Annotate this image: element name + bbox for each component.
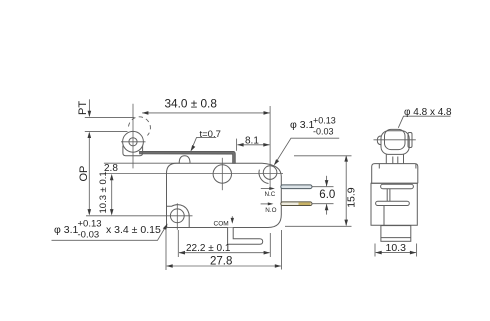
10.3 arrow up (110, 174, 114, 180)
side lower stadium bar (376, 201, 410, 205)
2.8 top reference (body top extended) (104, 162, 180, 164)
34.0 arrow right (264, 111, 270, 115)
10.3 arrow right (410, 251, 416, 255)
bottom-left hole vertical centerline (176, 203, 178, 230)
side terminal block (381, 226, 411, 242)
side upper block (372, 164, 418, 184)
plunger circle vertical centerline (221, 158, 223, 190)
bottom-left hole horizontal centerline (86, 215, 193, 217)
operating position line (85, 130, 128, 132)
svg-text:φ 3.1: φ 3.1 (54, 224, 78, 236)
side roller (385, 129, 406, 149)
plunger guide circle (213, 165, 231, 183)
N.O pin solder tip (299, 202, 311, 205)
side mid block (371, 183, 418, 225)
roller outer circle (front view) (123, 131, 144, 152)
side upper stadium bar (381, 184, 414, 188)
svg-text:x 3.4 ± 0.15: x 3.4 ± 0.15 (106, 224, 161, 236)
27.8 arrow right (275, 264, 281, 268)
8.1 arrow right (263, 143, 269, 147)
svg-text:27.8: 27.8 (210, 256, 232, 268)
22.2 dimension line (179, 252, 270, 254)
22.2 arrow right (264, 251, 270, 255)
phi3.1 bottom leader arrow (163, 224, 168, 231)
horizontal centerline through plunger and right hole (104, 173, 283, 175)
10.3 dimension line (111, 176, 113, 214)
t=0.7 leader arrow (191, 145, 196, 151)
svg-text:COM: COM (214, 220, 229, 227)
phi4.8 label underline and leader (398, 116, 450, 128)
N.C terminal pin (281, 185, 312, 189)
27.8 left extension line (165, 230, 167, 270)
15.9 dimension line (345, 157, 347, 226)
boss arc around top-right hole (259, 170, 269, 184)
switch body outline (front view) (167, 163, 282, 227)
N.O pointer arrowhead (268, 202, 274, 205)
phi3.1 bottom label underline and leader (52, 225, 167, 241)
svg-text:15.9: 15.9 (346, 187, 358, 208)
15.9 arrow up (344, 155, 348, 161)
22.2 right extension line (269, 233, 271, 257)
roller pin hole (129, 138, 137, 146)
svg-text:PT: PT (77, 101, 89, 115)
svg-text:OP: OP (78, 166, 90, 182)
10.3 arrow down (110, 209, 114, 215)
side stem (386, 154, 403, 163)
10.3 dimension line (376, 252, 416, 254)
8.1 arrow left (237, 143, 243, 147)
OP arrow up (88, 132, 92, 138)
N.C pin extension line (312, 186, 334, 188)
boss arc around bottom-left hole (167, 205, 190, 228)
svg-text:10.3: 10.3 (386, 242, 407, 254)
svg-text:φ 4.8 x 4.8: φ 4.8 x 4.8 (404, 107, 452, 118)
PT pointer line (88, 99, 90, 116)
side roller left axle nub (377, 136, 381, 145)
plunger dome on body top (179, 156, 190, 163)
15.9 bottom extension line (285, 225, 352, 227)
8.1 left extension line (236, 139, 238, 151)
svg-text:34.0 ± 0.8: 34.0 ± 0.8 (165, 97, 218, 111)
27.8 dimension line (167, 265, 281, 267)
side terminal block lip line (381, 237, 411, 239)
phi3.1 top leader arrow (274, 159, 279, 165)
dashed arc: lever free position (129, 117, 151, 136)
mounting hole bottom-left (170, 209, 184, 223)
34.0 dimension line (142, 112, 270, 114)
27.8 right extension line (281, 230, 283, 270)
roller horizontal centerline (121, 141, 146, 143)
side upper block corner ticks (379, 164, 416, 169)
free position line (85, 116, 135, 118)
svg-text:-0.03: -0.03 (78, 230, 100, 241)
svg-text:-0.03: -0.03 (313, 126, 334, 136)
OP arrow down (88, 209, 92, 215)
6.0 arrow down (325, 180, 329, 186)
side center post (387, 189, 390, 202)
side roller centerline (374, 139, 416, 141)
8.1 dimension line (237, 144, 269, 146)
15.9 arrow down (344, 220, 348, 226)
top-right hole vertical centerline / extension line (269, 106, 271, 188)
side stem notch (393, 157, 398, 164)
roller hinge cup (123, 146, 143, 156)
22.2 arrow left (179, 251, 185, 255)
side lower post line (383, 206, 385, 226)
roller lever arm (140, 151, 236, 163)
roller vertical centerline (132, 104, 134, 169)
svg-text:6.0: 6.0 (319, 189, 335, 201)
svg-text:22.2 ± 0.1: 22.2 ± 0.1 (186, 243, 231, 254)
side roller right cap (408, 133, 412, 148)
PT arrow down (88, 111, 92, 117)
6.0 dimension lower arrow line (326, 204, 328, 214)
svg-text:N.C: N.C (265, 191, 276, 198)
svg-text:t=0.7: t=0.7 (200, 129, 221, 140)
10.3 arrow left (375, 251, 381, 255)
COM arrow down (231, 218, 234, 224)
6.0 arrow up (325, 204, 329, 210)
10.3 right extension line (416, 244, 418, 257)
22.2 left extension line (177, 230, 179, 257)
N.O terminal pin (281, 202, 312, 206)
t=0.7 underline and leader (191, 138, 216, 151)
svg-text:+0.13: +0.13 (78, 219, 102, 230)
phi3.1 top label underline and leader (275, 138, 340, 164)
15.9 top extension line (294, 155, 352, 157)
10.3 left extension line (374, 244, 376, 257)
N.O pointer arrow line (261, 203, 272, 205)
N.O pin extension line (312, 203, 334, 205)
OP dimension line (88, 133, 90, 214)
svg-text:φ 3.1: φ 3.1 (290, 119, 314, 131)
mounting hole top-right (263, 166, 277, 180)
N.C pointer arrowhead (269, 187, 275, 190)
svg-text:8.1: 8.1 (245, 135, 259, 146)
side roller housing (381, 131, 409, 155)
svg-text:+0.13: +0.13 (313, 115, 336, 125)
COM L-shaped terminal (228, 228, 263, 245)
6.0 dimension upper arrow line (326, 176, 328, 186)
COM pointer line (231, 216, 233, 222)
side ledge line (371, 182, 418, 184)
27.8 arrow left (166, 264, 172, 268)
N.C pointer arrow line (261, 188, 273, 190)
svg-text:N.O: N.O (265, 207, 276, 214)
svg-text:10.3 ± 0.1: 10.3 ± 0.1 (98, 171, 109, 213)
34.0 arrow left (142, 111, 148, 115)
